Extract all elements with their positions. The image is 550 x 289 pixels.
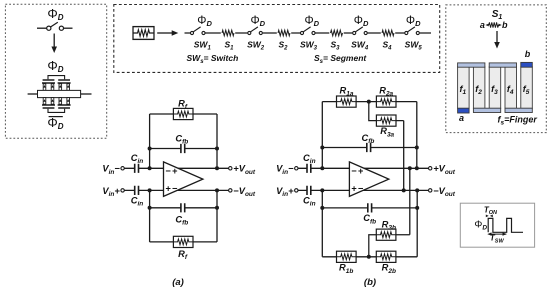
wire: (a) left feedback vertical bottom — [149, 190, 151, 242]
wire: R2b to -Vout vertical — [416, 190, 418, 256]
finger f1 (resistor bar) — [458, 67, 470, 109]
finger f4 (resistor bar) — [505, 67, 517, 109]
junction: (b) Cfb top left — [320, 146, 324, 150]
dimension marks T_ON — [486, 215, 493, 218]
wire: (b) Cfb bottom row — [322, 207, 417, 209]
terminal Vin+ (a) — [121, 189, 124, 192]
capacitor Cfb (b bottom) — [368, 203, 372, 212]
capacitor Cin (b top) — [307, 164, 311, 173]
junction: (a) -Vout node — [215, 188, 219, 192]
svg-text:a: a — [480, 20, 485, 30]
dimension arrow T_SW — [487, 232, 506, 235]
svg-text:+: + — [351, 184, 356, 194]
wire: (b) left vertical bottom — [321, 190, 323, 256]
capacitor Cfb (top) — [181, 144, 185, 153]
resistor segment S4 — [381, 30, 395, 37]
svg-text:−: − — [172, 184, 177, 194]
junction: (a) +Vout node — [215, 166, 219, 170]
junction: (b) top input node — [320, 166, 324, 170]
svg-text:−: − — [351, 166, 356, 176]
switch SW5 — [404, 27, 419, 35]
switch SW4 — [352, 27, 367, 35]
wire: (a) Cfb top row — [150, 148, 217, 150]
resistor (boxed symbol, left of arrow) — [133, 27, 154, 40]
terminal Vin- (b) — [295, 167, 298, 170]
metal strip top f1-f2 — [458, 63, 485, 67]
enclosure: clock timing inset — [460, 203, 534, 247]
wire: (a) Cfb bottom row — [150, 207, 217, 209]
transmission gate: top gate bars — [43, 79, 70, 81]
wire: (b) R1b-R2b row — [322, 256, 417, 258]
metal strip bottom f4-f5 — [505, 108, 532, 112]
svg-text:(b): (b) — [364, 277, 376, 288]
junction: (a) Cfb top right — [215, 147, 219, 151]
resistor mini-symbol a-to-b — [480, 20, 508, 30]
terminal cap a (bottom of f1) — [458, 108, 470, 113]
transmission gate: channel beam with terminals — [28, 90, 92, 97]
terminal +Vout (b) — [429, 167, 432, 170]
op-amp U2 (fully differential) — [349, 162, 388, 197]
transmission gate: top source/drain legs (arrows up) — [43, 84, 69, 91]
op-amp U2 polarity marks — [351, 166, 363, 194]
wire: (b) Cfb top row — [322, 147, 417, 149]
svg-text:(a): (a) — [172, 277, 184, 288]
capacitor Cin (b bottom) — [307, 186, 311, 195]
transmission gate: top channel bars — [42, 82, 71, 84]
capacitor Cfb (bottom) — [181, 203, 185, 212]
transmission gate: bottom gate bars — [43, 107, 70, 109]
svg-text:b: b — [525, 49, 531, 59]
metal strip top f3-f4 — [489, 63, 516, 67]
wire: (a) Rf top row — [150, 113, 217, 115]
wire: (b) left vertical top — [321, 102, 323, 169]
resistor R3a — [376, 115, 396, 126]
wire: R3a to -Vout vertical — [403, 121, 405, 191]
switch SW3 — [300, 27, 315, 35]
resistor segment S1 — [221, 30, 235, 37]
svg-text:b: b — [502, 20, 508, 30]
wire: (b) top signal line Vin- to +Vout — [298, 167, 429, 169]
wire: (a) Rf bottom row — [150, 241, 217, 243]
svg-text:−: − — [166, 166, 171, 176]
junction: R3b at +Vout — [408, 166, 412, 170]
label phi_D-bar (t-gate bottom gate) — [47, 115, 63, 131]
wire: (b) bottom signal line Vin+ to -Vout — [298, 189, 429, 191]
terminal Vin+ (b) — [295, 189, 298, 192]
arrow (implemented-as) — [494, 31, 500, 49]
terminal +Vout (a) — [229, 167, 232, 170]
metal strip bottom f2-f3 — [473, 108, 500, 112]
wire: (a) top signal line Vin- to +Vout — [124, 167, 228, 169]
svg-text:+: + — [166, 184, 171, 194]
junction: R1b-R2b node — [367, 255, 371, 259]
resistor Rf (top) — [173, 108, 193, 119]
capacitor Cfb (b top) — [367, 143, 371, 152]
junction: (b) Cfb bottom right — [415, 206, 419, 210]
wire: R3b to +Vout vertical — [409, 168, 411, 234]
finger f3 (resistor bar) — [489, 67, 501, 109]
svg-text:+: + — [358, 166, 363, 176]
wire: (a) right feedback vertical bottom — [216, 190, 218, 242]
wire: (a) right feedback vertical top — [216, 114, 218, 168]
resistor R2a — [376, 96, 396, 107]
junction: (b) Cfb top right — [415, 146, 419, 150]
junction: (a) bottom input node — [148, 188, 152, 192]
svg-text:−: − — [358, 184, 363, 194]
switch SW1 — [190, 27, 205, 35]
enclosure: switch implementation detail (dashed box) — [5, 4, 106, 138]
transmission gate: bottom gate connector wire — [48, 109, 65, 113]
junction: R3a at -Vout — [402, 188, 406, 192]
junction: (b) Cfb bottom left — [320, 206, 324, 210]
junction: (a) Cfb bottom right — [215, 206, 219, 210]
capacitor Cin (a bottom) — [135, 186, 139, 195]
transmission gate: top gate connector wire — [48, 76, 65, 80]
wire: R2a to +Vout vertical — [416, 102, 418, 169]
resistor Rf (bottom) — [173, 236, 193, 247]
terminal -Vout (a) — [229, 189, 232, 192]
op-amp U1 (fully differential) — [164, 162, 203, 197]
junction: (a) Cfb top left — [148, 147, 152, 151]
enclosure: segmented-resistor legend (dashed box) — [114, 5, 440, 73]
waveform phi_D — [488, 218, 523, 232]
arrow (expands-to) — [157, 30, 178, 36]
junction: (b) bottom input node — [320, 188, 324, 192]
resistor R1a — [337, 96, 357, 107]
transmission gate: bottom channel bars — [42, 104, 71, 106]
arrow (implemented-as) — [51, 34, 57, 54]
resistor R3b — [376, 229, 396, 240]
resistor segment S2 — [277, 30, 291, 37]
terminal Vin- (a) — [121, 167, 124, 170]
capacitor Cin (a top) — [135, 164, 139, 173]
junction: (a) Cfb bottom left — [148, 206, 152, 210]
junction: R2a vertical at +Vout — [415, 166, 419, 170]
op-amp U1 polarity marks — [166, 166, 178, 194]
finger f2 (resistor bar) — [473, 67, 485, 109]
resistor R1b — [337, 251, 357, 262]
wire: (a) bottom signal line Vin+ to -Vout — [124, 189, 228, 191]
switch symbol (ideal SPST) — [37, 22, 73, 30]
wire: (b) R1a-R2a row — [322, 101, 417, 103]
wire: R3a link — [369, 102, 404, 121]
junction: R2b vertical at -Vout — [415, 188, 419, 192]
wire: (a) left feedback vertical top — [149, 114, 151, 168]
svg-text:a: a — [459, 113, 464, 123]
svg-text:+: + — [172, 166, 177, 176]
switch SW2 — [247, 27, 262, 35]
resistor segment S3 — [329, 30, 343, 37]
terminal cap b (top of f5) — [521, 62, 533, 67]
junction: R1a-R2a node — [367, 100, 371, 104]
terminal -Vout (b) — [429, 189, 432, 192]
resistor R2b — [376, 251, 396, 262]
enclosure: segment implementation (dashed box) — [446, 5, 547, 133]
transmission gate: bottom source/drain legs (arrows up) — [43, 98, 69, 105]
wire: chain line — [185, 32, 432, 34]
wire: R3b link — [369, 235, 410, 257]
junction: (a) top input node — [148, 166, 152, 170]
finger f5 (resistor bar) — [521, 67, 533, 109]
